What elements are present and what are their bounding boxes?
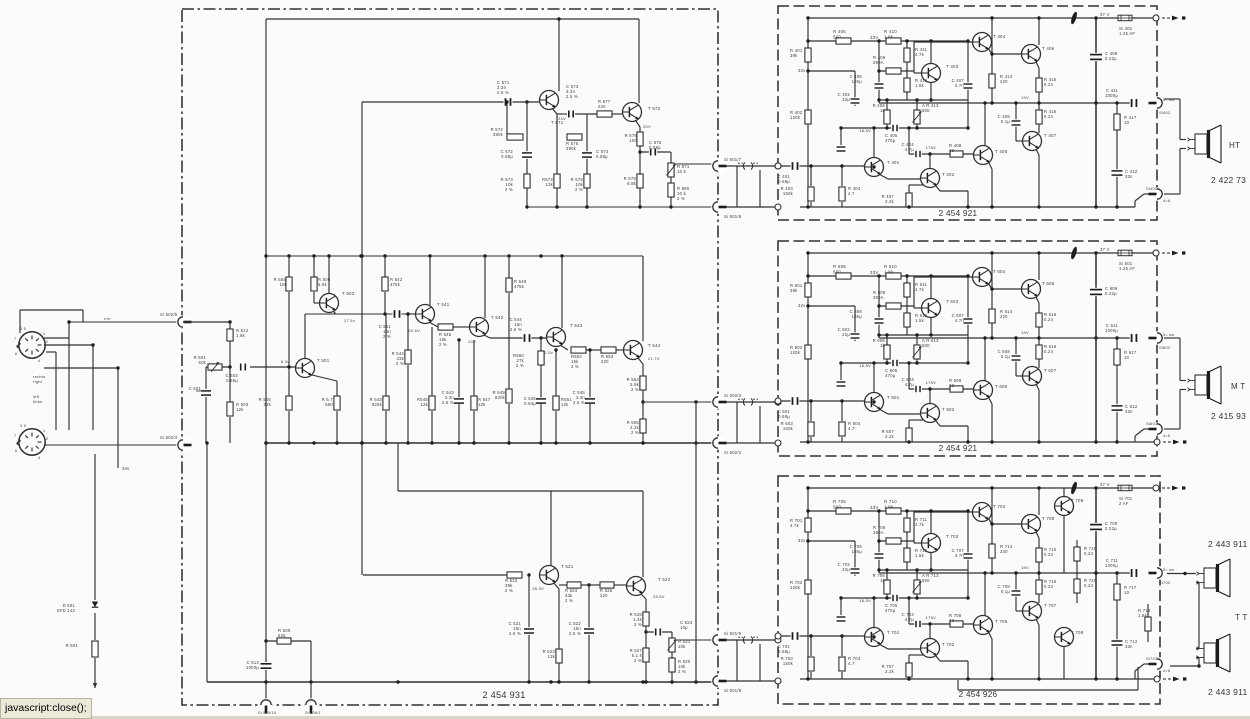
svg-text:Si703: Si703	[1146, 656, 1158, 661]
svg-text:390k: 390k	[566, 146, 577, 151]
svg-text:10: 10	[1124, 590, 1130, 595]
svg-text:T T: T T	[1235, 613, 1247, 622]
svg-text:18,5V: 18,5V	[859, 128, 871, 133]
svg-text:0.22μ: 0.22μ	[1105, 56, 1117, 61]
svg-text:50k: 50k	[198, 360, 206, 365]
svg-text:1.25 AF: 1.25 AF	[1119, 266, 1135, 271]
svg-text:links: links	[33, 399, 42, 404]
svg-text:4.7: 4.7	[848, 426, 855, 431]
svg-text:220: 220	[1000, 314, 1008, 319]
svg-text:0.68μ: 0.68μ	[649, 145, 661, 150]
svg-text:20V: 20V	[468, 339, 476, 344]
svg-text:19V: 19V	[1021, 95, 1029, 100]
svg-text:Si402: Si402	[1159, 110, 1171, 115]
svg-text:4.7k: 4.7k	[790, 523, 800, 528]
svg-text:T 402: T 402	[942, 172, 955, 177]
svg-text:7: 7	[14, 434, 16, 438]
svg-text:T 703: T 703	[946, 534, 959, 539]
svg-text:R 405: R 405	[833, 29, 846, 34]
svg-text:Si 505/1: Si 505/1	[305, 711, 321, 715]
svg-text:22μ: 22μ	[842, 97, 850, 102]
svg-text:2.2k: 2.2k	[885, 199, 895, 204]
svg-text:33V: 33V	[870, 505, 879, 510]
svg-text:T 544: T 544	[648, 343, 661, 348]
svg-text:2 415 93: 2 415 93	[1211, 411, 1246, 421]
svg-text:475k: 475k	[390, 282, 401, 287]
svg-text:T 521: T 521	[561, 564, 574, 569]
svg-text:2.5 %: 2.5 %	[510, 327, 522, 332]
svg-text:32v: 32v	[798, 538, 806, 543]
svg-text:4=6: 4=6	[1163, 199, 1170, 203]
svg-text:2.5 %: 2.5 %	[442, 400, 454, 405]
svg-text:1.5k: 1.5k	[915, 318, 925, 323]
svg-text:Si 502/3: Si 502/3	[724, 393, 742, 398]
svg-text:1000μ: 1000μ	[246, 665, 259, 670]
svg-text:1.5k: 1.5k	[915, 83, 925, 88]
svg-text:12k: 12k	[545, 182, 553, 187]
svg-text:2 %: 2 %	[383, 334, 391, 339]
svg-text:2 %: 2 %	[439, 342, 447, 347]
svg-text:33V: 33V	[870, 35, 879, 40]
svg-text:1k: 1k	[880, 108, 886, 113]
svg-text:HT: HT	[1229, 141, 1240, 150]
svg-text:390A: 390A	[873, 530, 884, 535]
svg-text:2 454 931: 2 454 931	[482, 690, 525, 700]
svg-text:Si702: Si702	[1159, 580, 1171, 585]
svg-text:2.5 %: 2.5 %	[569, 631, 581, 636]
svg-text:470μ: 470μ	[885, 608, 896, 613]
svg-text:2.2k: 2.2k	[885, 434, 895, 439]
svg-text:Si 502/5: Si 502/5	[160, 312, 178, 317]
svg-text:560: 560	[833, 504, 841, 509]
svg-text:37 V: 37 V	[1100, 12, 1110, 17]
svg-text:T 603: T 603	[946, 299, 959, 304]
svg-text:2 454 921: 2 454 921	[939, 444, 978, 453]
svg-text:4.7μ: 4.7μ	[905, 617, 915, 622]
svg-text:Si 501/8: Si 501/8	[724, 688, 742, 693]
svg-text:0.68μ: 0.68μ	[501, 154, 513, 159]
svg-text:R 501: R 501	[66, 643, 79, 648]
svg-text:T 572: T 572	[648, 106, 661, 111]
svg-text:12k: 12k	[547, 654, 555, 659]
svg-text:4.7μ: 4.7μ	[905, 382, 915, 387]
svg-text:33: 33	[949, 383, 955, 388]
svg-text:2.5 %: 2.5 %	[566, 94, 578, 99]
svg-text:0.68μ: 0.68μ	[778, 179, 790, 184]
svg-text:T 602: T 602	[942, 407, 955, 412]
svg-text:1: 1	[43, 429, 45, 433]
svg-text:T 501: T 501	[317, 358, 330, 363]
svg-text:32v: 32v	[798, 68, 806, 73]
svg-text:120k: 120k	[790, 115, 801, 120]
svg-text:R 705: R 705	[833, 499, 846, 504]
svg-text:33: 33	[949, 618, 955, 623]
svg-text:32v: 32v	[798, 303, 806, 308]
svg-text:Si 501/9: Si 501/9	[724, 631, 742, 636]
svg-text:3 5: 3 5	[20, 327, 26, 331]
svg-text:220: 220	[598, 104, 606, 109]
svg-text:390k: 390k	[493, 132, 504, 137]
svg-text:6.3v: 6.3v	[281, 359, 290, 364]
svg-text:0.24: 0.24	[1044, 584, 1054, 589]
svg-text:T 701: T 701	[887, 630, 900, 635]
svg-text:T 704: T 704	[993, 504, 1006, 509]
svg-text:T 406: T 406	[1042, 46, 1055, 51]
svg-text:2 %: 2 %	[634, 622, 642, 627]
svg-text:625: 625	[278, 633, 286, 638]
svg-text:220: 220	[600, 593, 608, 598]
svg-text:0.24: 0.24	[1044, 82, 1054, 87]
svg-text:1000μ: 1000μ	[1105, 328, 1118, 333]
svg-text:26.5V: 26.5V	[532, 586, 544, 591]
svg-text:1000μ: 1000μ	[1105, 93, 1118, 98]
svg-text:C 501: C 501	[189, 386, 202, 391]
svg-text:4.7: 4.7	[848, 191, 855, 196]
svg-text:24V: 24V	[558, 116, 566, 121]
svg-text:560: 560	[833, 269, 841, 274]
svg-text:220: 220	[601, 359, 609, 364]
svg-text:T 604: T 604	[993, 269, 1006, 274]
svg-text:120k: 120k	[790, 350, 801, 355]
svg-text:820k: 820k	[495, 395, 506, 400]
svg-text:0.24: 0.24	[1044, 552, 1054, 557]
svg-text:12k: 12k	[561, 402, 569, 407]
svg-text:1: 1	[43, 332, 45, 336]
svg-text:20V: 20V	[643, 124, 651, 129]
svg-text:7: 7	[14, 337, 16, 341]
svg-text:T 407: T 407	[1044, 133, 1057, 138]
svg-text:19V: 19V	[1021, 330, 1029, 335]
svg-text:0.1μ: 0.1μ	[1001, 119, 1011, 124]
svg-text:12k: 12k	[478, 402, 486, 407]
svg-text:4.7n: 4.7n	[955, 553, 965, 558]
svg-text:T 709: T 709	[1071, 630, 1084, 635]
svg-text:150k: 150k	[783, 191, 794, 196]
svg-text:0.68μ: 0.68μ	[226, 378, 238, 383]
svg-text:33: 33	[949, 148, 955, 153]
svg-text:175V: 175V	[926, 615, 936, 620]
svg-text:Si 501/7: Si 501/7	[724, 157, 742, 162]
svg-text:T 707: T 707	[1044, 603, 1057, 608]
svg-text:0.1μ: 0.1μ	[1001, 589, 1011, 594]
svg-text:1k: 1k	[880, 343, 886, 348]
svg-text:2 443 911: 2 443 911	[1208, 539, 1247, 549]
svg-text:825k: 825k	[372, 402, 383, 407]
svg-text:470μ: 470μ	[885, 373, 896, 378]
svg-text:T 522: T 522	[658, 577, 671, 582]
svg-text:0.68μ: 0.68μ	[778, 649, 790, 654]
svg-text:T 607: T 607	[1044, 368, 1057, 373]
svg-text:2 %: 2 %	[575, 187, 583, 192]
svg-text:Si 502/4: Si 502/4	[160, 435, 178, 440]
svg-text:500: 500	[922, 108, 930, 113]
svg-text:R 410: R 410	[884, 29, 897, 34]
svg-text:390A: 390A	[873, 60, 884, 65]
svg-text:175V: 175V	[926, 380, 936, 385]
svg-text:0.1μ: 0.1μ	[1001, 354, 1011, 359]
svg-text:21.7V: 21.7V	[648, 356, 660, 361]
svg-text:560: 560	[325, 402, 333, 407]
svg-text:1.8k: 1.8k	[1138, 613, 1148, 618]
svg-text:37 V: 37 V	[1100, 482, 1110, 487]
svg-text:2 %: 2 %	[505, 588, 513, 593]
svg-text:0.24: 0.24	[1044, 317, 1054, 322]
svg-text:Si 505/10: Si 505/10	[258, 711, 276, 715]
svg-text:10μ: 10μ	[680, 625, 688, 630]
svg-text:2.2k: 2.2k	[885, 669, 895, 674]
svg-text:10k: 10k	[678, 644, 686, 649]
svg-text:27.5v: 27.5v	[344, 318, 355, 323]
svg-text:2.5 %: 2.5 %	[509, 631, 521, 636]
svg-text:34v: 34v	[122, 466, 130, 471]
svg-text:2.5 %: 2.5 %	[573, 400, 585, 405]
svg-text:2 AF: 2 AF	[1119, 501, 1129, 506]
svg-text:Si403: Si403	[1146, 186, 1158, 191]
svg-text:2 454 921: 2 454 921	[939, 209, 978, 218]
svg-text:500: 500	[922, 578, 930, 583]
svg-text:33n: 33n	[1125, 644, 1133, 649]
svg-text:12k: 12k	[420, 402, 428, 407]
svg-text:4=6: 4=6	[1163, 669, 1170, 673]
svg-text:22μ: 22μ	[842, 332, 850, 337]
svg-text:2: 2	[46, 437, 48, 441]
svg-text:R 610: R 610	[884, 264, 897, 269]
svg-text:220: 220	[1000, 79, 1008, 84]
svg-text:4.7k: 4.7k	[915, 522, 925, 527]
svg-text:T 702: T 702	[942, 642, 955, 647]
svg-text:T 404: T 404	[993, 34, 1006, 39]
svg-text:T 542: T 542	[491, 315, 504, 320]
svg-text:0.94μ: 0.94μ	[524, 401, 536, 406]
svg-text:1000μ: 1000μ	[1105, 563, 1118, 568]
svg-text:T 705: T 705	[995, 619, 1008, 624]
svg-text:T 708: T 708	[1071, 498, 1084, 503]
svg-text:1M: 1M	[280, 282, 287, 287]
svg-text:475k: 475k	[514, 284, 525, 289]
svg-text:100μ: 100μ	[852, 314, 863, 319]
svg-text:Si 501/6: Si 501/6	[724, 214, 742, 219]
svg-text:4.7: 4.7	[848, 661, 855, 666]
svg-text:10 k: 10 k	[677, 169, 687, 174]
svg-text:rrrrr: rrrrr	[104, 317, 112, 321]
svg-text:37 V: 37 V	[1100, 247, 1110, 252]
svg-text:2 %: 2 %	[571, 364, 579, 369]
svg-text:SFD 143: SFD 143	[57, 608, 76, 613]
svg-text:150k: 150k	[783, 661, 794, 666]
svg-text:T 606: T 606	[1042, 281, 1055, 286]
svg-text:220: 220	[1000, 549, 1008, 554]
svg-text:100μ: 100μ	[852, 549, 863, 554]
svg-text:0.68μ: 0.68μ	[778, 414, 790, 419]
svg-text:39k: 39k	[790, 288, 798, 293]
svg-text:2 %: 2 %	[505, 187, 513, 192]
svg-text:22k: 22k	[263, 402, 271, 407]
svg-text:33V: 33V	[870, 270, 879, 275]
svg-text:R 710: R 710	[884, 499, 897, 504]
svg-text:1.8k: 1.8k	[236, 333, 246, 338]
svg-text:R 605: R 605	[833, 264, 846, 269]
svg-text:390A: 390A	[873, 295, 884, 300]
svg-text:0.22μ: 0.22μ	[1105, 291, 1117, 296]
svg-text:10: 10	[1124, 355, 1130, 360]
svg-text:4: 4	[38, 359, 40, 363]
svg-text:1.8k: 1.8k	[884, 269, 894, 274]
svg-text:20.6V: 20.6V	[408, 328, 420, 333]
svg-text:T 605: T 605	[995, 384, 1008, 389]
svg-text:4.7k: 4.7k	[915, 287, 925, 292]
svg-text:Si602: Si602	[1159, 345, 1171, 350]
svg-text:4=6: 4=6	[1163, 434, 1170, 438]
svg-text:T 401: T 401	[887, 160, 900, 165]
svg-text:1.5k: 1.5k	[915, 553, 925, 558]
svg-text:2 %: 2 %	[634, 658, 642, 663]
svg-text:175V: 175V	[926, 145, 936, 150]
svg-text:1.25 AF: 1.25 AF	[1119, 31, 1135, 36]
svg-text:18,5V: 18,5V	[859, 598, 871, 603]
svg-text:2 %: 2 %	[631, 387, 639, 392]
svg-text:6: 6	[15, 449, 17, 453]
svg-text:33n: 33n	[1125, 174, 1133, 179]
svg-text:1k: 1k	[880, 578, 886, 583]
svg-text:150k: 150k	[783, 426, 794, 431]
svg-text:100μ: 100μ	[852, 79, 863, 84]
svg-text:0.68μ: 0.68μ	[596, 154, 608, 159]
svg-text:2 443 911: 2 443 911	[1208, 687, 1247, 697]
svg-text:500: 500	[922, 343, 930, 348]
svg-text:T 708: T 708	[1042, 516, 1055, 521]
svg-text:5.6k: 5.6k	[318, 282, 328, 287]
svg-text:T 541: T 541	[437, 302, 450, 307]
svg-text:2 422 73: 2 422 73	[1211, 175, 1246, 185]
svg-text:2 454 926: 2 454 926	[959, 690, 998, 699]
svg-text:3 5: 3 5	[20, 424, 26, 428]
svg-text:Si 502/2: Si 502/2	[724, 450, 742, 455]
svg-text:5= ws: 5= ws	[1163, 568, 1174, 572]
svg-text:1.8k: 1.8k	[884, 504, 894, 509]
svg-text:4: 4	[38, 456, 40, 460]
svg-text:0.24: 0.24	[1044, 349, 1054, 354]
svg-text:6.8k: 6.8k	[627, 181, 637, 186]
svg-text:1.8k: 1.8k	[884, 34, 894, 39]
svg-text:2 %: 2 %	[565, 598, 573, 603]
svg-text:18,5V: 18,5V	[859, 363, 871, 368]
svg-text:19V: 19V	[1021, 565, 1029, 570]
svg-text:6: 6	[15, 352, 17, 356]
svg-text:T 601: T 601	[887, 395, 900, 400]
svg-text:2 %: 2 %	[678, 669, 686, 674]
svg-text:Si603: Si603	[1146, 421, 1158, 426]
svg-text:12k: 12k	[236, 407, 244, 412]
svg-text:T 403: T 403	[946, 64, 959, 69]
svg-text:470μ: 470μ	[885, 138, 896, 143]
svg-text:right: right	[33, 379, 43, 384]
svg-text:4.7n: 4.7n	[955, 83, 965, 88]
svg-text:33n: 33n	[1125, 409, 1133, 414]
svg-text:M T: M T	[1231, 382, 1245, 391]
svg-text:T 502: T 502	[342, 291, 355, 296]
svg-text:120k: 120k	[790, 585, 801, 590]
svg-text:0.24: 0.24	[1084, 583, 1094, 588]
svg-text:0.24: 0.24	[1084, 551, 1094, 556]
svg-text:2 %: 2 %	[396, 361, 404, 366]
svg-text:0.24: 0.24	[1044, 114, 1054, 119]
svg-text:2 %: 2 %	[516, 363, 524, 368]
svg-text:560: 560	[833, 34, 841, 39]
svg-text:4.7k: 4.7k	[915, 52, 925, 57]
svg-text:22μ: 22μ	[842, 567, 850, 572]
svg-text:T 543: T 543	[570, 323, 583, 328]
svg-text:4.7μ: 4.7μ	[905, 147, 915, 152]
svg-text:2 %: 2 %	[677, 196, 685, 201]
svg-text:4.7n: 4.7n	[955, 318, 965, 323]
svg-text:2: 2	[46, 340, 48, 344]
svg-text:10: 10	[1124, 120, 1130, 125]
svg-text:25.5V: 25.5V	[653, 594, 665, 599]
svg-text:100: 100	[629, 138, 637, 143]
svg-text:2 %: 2 %	[631, 430, 639, 435]
svg-text:2.5 %: 2.5 %	[497, 90, 509, 95]
svg-text:39k: 39k	[790, 53, 798, 58]
svg-text:T 405: T 405	[995, 149, 1008, 154]
svg-text:0.22μ: 0.22μ	[1105, 526, 1117, 531]
svg-text:5= ws: 5= ws	[1163, 333, 1174, 337]
